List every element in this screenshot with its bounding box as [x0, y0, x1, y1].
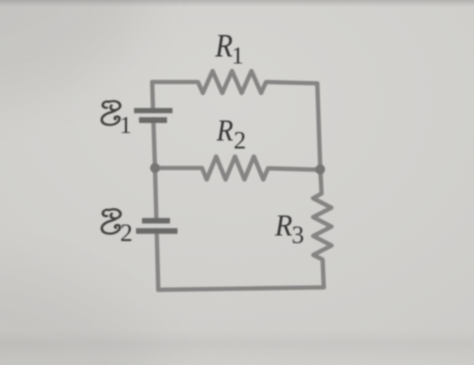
svg-text:1: 1 [232, 43, 244, 69]
svg-text:3: 3 [292, 222, 305, 249]
svg-text:R: R [274, 208, 292, 242]
svg-text:2: 2 [234, 128, 247, 155]
svg-text:R: R [216, 114, 234, 148]
svg-text:2: 2 [120, 220, 133, 247]
svg-text:R: R [214, 27, 233, 64]
svg-text:1: 1 [120, 113, 132, 139]
